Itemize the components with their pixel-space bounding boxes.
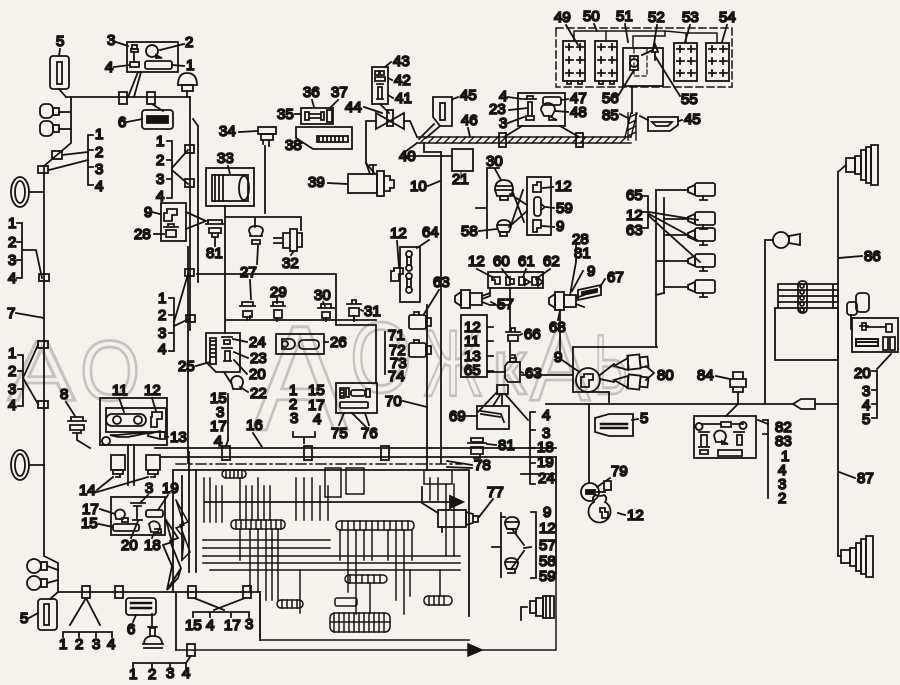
bus xyxy=(656,190,664,347)
svg-text:53: 53 xyxy=(682,9,699,26)
label 40 xyxy=(399,143,417,165)
dome lamp 58 xyxy=(497,220,511,236)
svg-text:39: 39 xyxy=(308,174,325,191)
label 30 xyxy=(314,287,331,306)
bracket 1 2 3 4 bottom mid xyxy=(129,657,190,683)
box 11/12 unit xyxy=(100,398,167,445)
plug 63b xyxy=(409,340,431,357)
leaders to 69/4 xyxy=(478,392,528,420)
bracket 28/81/9 right xyxy=(570,231,595,295)
headlight small 2 xyxy=(40,121,71,136)
watermark xyxy=(8,294,628,462)
svg-text:43: 43 xyxy=(393,53,410,70)
item 8 xyxy=(68,417,90,448)
plug P2 xyxy=(664,212,715,229)
svg-text:5: 5 xyxy=(862,411,870,428)
label 4 xyxy=(499,88,522,105)
svg-text:2: 2 xyxy=(8,363,16,380)
clip on cab vertical lower xyxy=(185,179,194,187)
svg-text:76: 76 xyxy=(361,425,378,442)
label 1 15 2 17 3 4 col xyxy=(289,382,325,443)
svg-text:4: 4 xyxy=(182,665,190,682)
svg-text:63: 63 xyxy=(433,274,450,291)
label 63 xyxy=(424,274,450,314)
right main vertical xyxy=(838,165,846,556)
bottom harness H3 xyxy=(58,591,260,593)
pear 12 xyxy=(589,495,611,523)
item 22 xyxy=(224,372,243,389)
svg-text:46: 46 xyxy=(461,112,478,129)
svg-text:61: 61 xyxy=(518,253,535,270)
svg-text:2: 2 xyxy=(148,666,156,683)
svg-text:4: 4 xyxy=(95,178,103,195)
label 70 xyxy=(385,393,427,410)
label 8 xyxy=(60,386,75,416)
svg-text:4: 4 xyxy=(206,617,214,634)
main vertical MV1 xyxy=(440,152,442,463)
label 36 xyxy=(303,84,320,107)
wire cab outline xyxy=(197,274,376,383)
svg-text:3: 3 xyxy=(95,161,103,178)
svg-text:20: 20 xyxy=(854,365,871,382)
right drop to 57/58 cluster xyxy=(521,457,556,573)
svg-text:59: 59 xyxy=(556,200,573,217)
svg-text:26: 26 xyxy=(330,334,347,351)
wiring 57 xyxy=(482,288,510,330)
label 81b xyxy=(487,437,515,454)
label 35 xyxy=(277,106,301,123)
lamp 5 (front marker) xyxy=(50,56,69,97)
label 12 xyxy=(144,382,161,411)
clip below 63c xyxy=(497,385,508,404)
bracket 1-4 (d) xyxy=(8,345,38,414)
svg-text:20: 20 xyxy=(249,366,266,383)
bracket 1 2 3 4 bottom left xyxy=(59,598,115,653)
svg-text:64: 64 xyxy=(422,224,439,241)
fuse module 53 xyxy=(674,43,697,81)
svg-text:5: 5 xyxy=(20,610,28,627)
plug 63c xyxy=(487,355,520,382)
box 82/83 xyxy=(694,416,756,458)
lamps 14 xyxy=(111,445,160,485)
label 9R xyxy=(554,349,578,371)
svg-text:4: 4 xyxy=(105,59,113,76)
svg-text:11: 11 xyxy=(112,382,128,399)
svg-text:34: 34 xyxy=(219,123,236,140)
svg-text:3: 3 xyxy=(156,171,164,188)
svg-text:3: 3 xyxy=(158,325,166,342)
label 63c xyxy=(521,365,542,382)
frame 12/11/13/65 xyxy=(461,315,493,379)
plugs 80 xyxy=(600,354,654,389)
ring 79 xyxy=(581,481,611,501)
box 69 xyxy=(477,406,509,429)
cluster wiring xyxy=(476,168,527,238)
svg-text:65: 65 xyxy=(626,187,643,204)
svg-text:4: 4 xyxy=(107,636,115,653)
switch 9 (steering) xyxy=(576,368,600,392)
fuse module 50 xyxy=(595,41,617,84)
svg-text:12: 12 xyxy=(539,520,556,537)
svg-text:19: 19 xyxy=(162,480,179,497)
labels 65/12/63 + bracket xyxy=(626,187,700,262)
svg-text:58: 58 xyxy=(461,223,478,240)
bracket 1-4 (b) xyxy=(156,133,188,205)
svg-text:25: 25 xyxy=(178,358,195,375)
headlight small 1 xyxy=(40,104,71,118)
label 66 xyxy=(520,326,541,343)
svg-text:4: 4 xyxy=(8,270,16,287)
switch 31 xyxy=(347,300,361,321)
svg-text:3: 3 xyxy=(107,32,115,49)
label 62 xyxy=(536,253,560,279)
svg-text:3: 3 xyxy=(8,252,16,269)
svg-text:45: 45 xyxy=(684,111,701,128)
svg-text:3: 3 xyxy=(245,616,253,633)
svg-text:2: 2 xyxy=(158,307,166,324)
box items 1-4 (lamp unit) xyxy=(127,42,178,72)
horn right xyxy=(765,232,800,404)
clip on V2 y403 xyxy=(38,401,48,408)
svg-text:63: 63 xyxy=(626,222,643,239)
label 41 xyxy=(388,90,412,107)
svg-text:32: 32 xyxy=(282,255,299,272)
item 44 bowtie xyxy=(376,110,404,129)
second vertical xyxy=(426,305,428,470)
svg-text:9: 9 xyxy=(554,349,562,366)
clip on V2 y277 xyxy=(39,274,49,281)
label 23 xyxy=(489,101,528,118)
svg-text:35: 35 xyxy=(277,106,294,123)
label 15/3/17/4 col xyxy=(210,390,228,450)
connector 68 xyxy=(549,292,584,352)
svg-text:3: 3 xyxy=(92,636,100,653)
frame with 12/59/9 glyphs xyxy=(527,177,551,235)
svg-text:36: 36 xyxy=(303,84,320,101)
label 25 xyxy=(178,358,210,375)
svg-text:12: 12 xyxy=(468,253,485,270)
svg-text:12: 12 xyxy=(555,178,572,195)
fuse box 25 with 24/23/20 xyxy=(206,333,240,372)
svg-text:15: 15 xyxy=(81,515,98,532)
svg-text:12: 12 xyxy=(627,507,644,524)
svg-text:80: 80 xyxy=(657,367,674,384)
svg-text:85: 85 xyxy=(602,107,619,124)
svg-text:9: 9 xyxy=(587,263,595,280)
svg-text:О: О xyxy=(80,324,140,419)
wire 84 to 82/83 box xyxy=(726,404,738,416)
clip H3 a xyxy=(82,586,90,598)
label 47 xyxy=(562,90,587,107)
svg-text:2: 2 xyxy=(778,490,786,507)
svg-text:20: 20 xyxy=(121,537,138,554)
svg-text:67: 67 xyxy=(607,269,624,286)
svg-text:33: 33 xyxy=(217,150,234,167)
clip y318 xyxy=(186,315,195,322)
label 13 xyxy=(165,429,187,446)
dome lamp on H1 xyxy=(178,73,197,97)
svg-text:10: 10 xyxy=(410,178,427,195)
label 61 xyxy=(518,253,535,277)
label 53 xyxy=(682,9,699,42)
label 43 xyxy=(385,53,410,70)
box 9/28 xyxy=(161,203,206,241)
clip H3 b xyxy=(115,586,123,598)
cable 38 xyxy=(296,127,352,149)
svg-text:68: 68 xyxy=(549,319,566,336)
svg-text:54: 54 xyxy=(719,9,736,26)
label 20f xyxy=(121,521,138,554)
wire y404 xyxy=(546,403,838,405)
connector 57a xyxy=(455,290,490,308)
tray 45b xyxy=(640,116,678,131)
label 5 xyxy=(56,33,64,56)
clip H3 c xyxy=(188,586,196,598)
label 27 xyxy=(240,246,258,299)
svg-text:1: 1 xyxy=(95,126,103,143)
bracket 1-4 (e) xyxy=(158,274,189,358)
svg-text:70: 70 xyxy=(385,393,402,410)
speaker bottom xyxy=(841,536,873,577)
V2 bottom elbow xyxy=(44,556,58,592)
svg-text:15: 15 xyxy=(185,617,202,634)
lamp 6b xyxy=(126,598,156,615)
svg-text:81: 81 xyxy=(206,245,223,262)
bracket 15 4 17 3 xyxy=(185,598,253,634)
bracket 82/83/1/4/3/2 xyxy=(758,419,792,507)
relay 33 xyxy=(206,168,301,333)
svg-text:2: 2 xyxy=(75,636,83,653)
bracket 1-4 (c) xyxy=(8,223,42,287)
svg-text:42: 42 xyxy=(394,72,411,89)
svg-text:44: 44 xyxy=(345,99,362,116)
bracket 4/3/18/19/24 xyxy=(530,407,555,487)
item 81a xyxy=(206,220,224,237)
label 59 xyxy=(546,200,573,217)
label 5b xyxy=(20,610,38,627)
flag 67 xyxy=(578,285,601,300)
clip H3 d xyxy=(243,586,251,598)
svg-text:1: 1 xyxy=(8,345,16,362)
svg-text:1: 1 xyxy=(59,636,67,653)
label 49 xyxy=(554,9,578,45)
bracket 71-74 xyxy=(385,327,407,385)
svg-text:3: 3 xyxy=(8,381,16,398)
label 86 xyxy=(839,248,881,265)
bus wire under 29/30/31 xyxy=(225,316,376,320)
svg-text:52: 52 xyxy=(648,9,665,26)
svg-text:14: 14 xyxy=(79,482,96,499)
clip on left drop 2 xyxy=(38,166,48,173)
svg-text:2: 2 xyxy=(8,234,16,251)
svg-text:62: 62 xyxy=(543,253,560,270)
svg-text:50: 50 xyxy=(583,8,600,25)
svg-text:38: 38 xyxy=(285,137,302,154)
lamp 5c xyxy=(595,414,633,436)
label 3f xyxy=(140,480,153,503)
label 87 xyxy=(839,470,874,487)
label 23 xyxy=(234,350,267,367)
zigzag arrows xyxy=(163,520,181,590)
bracket 20/3/4/5 xyxy=(854,354,891,428)
label 68 xyxy=(549,311,566,336)
box 64 xyxy=(400,247,420,302)
label 15f xyxy=(81,515,113,532)
label 52 xyxy=(642,9,665,55)
label 57 xyxy=(491,296,514,313)
box 36/37 xyxy=(301,108,333,124)
hatched riser xyxy=(628,113,636,140)
label 5c xyxy=(632,410,648,427)
svg-text:60: 60 xyxy=(493,253,510,270)
maze combs and bundles xyxy=(176,468,556,656)
arrow into 77 xyxy=(205,501,452,503)
label 56 xyxy=(602,70,634,107)
label 16 xyxy=(246,417,263,447)
svg-text:12: 12 xyxy=(390,225,407,242)
svg-text:24: 24 xyxy=(249,334,266,351)
lamp 5b xyxy=(38,592,58,630)
relay 55/56 box xyxy=(623,44,663,86)
svg-text:3: 3 xyxy=(145,480,153,497)
plug P5 xyxy=(656,280,715,297)
svg-text:22: 22 xyxy=(250,385,267,402)
radio 86 box xyxy=(775,281,838,360)
svg-text:1: 1 xyxy=(158,290,166,307)
fuse module 49 xyxy=(563,41,585,84)
svg-text:2: 2 xyxy=(156,152,164,169)
label 81 xyxy=(206,238,223,262)
bolt 66 xyxy=(506,328,520,362)
svg-text:29: 29 xyxy=(270,284,287,301)
label 12 xyxy=(390,225,407,267)
svg-text:24: 24 xyxy=(538,470,555,487)
clamps on shielded harness xyxy=(499,133,506,147)
svg-text:27: 27 xyxy=(240,264,257,281)
pedestal lamp xyxy=(143,614,163,648)
leaders from box down to shielded harness xyxy=(504,126,579,137)
label 39 xyxy=(308,174,348,191)
label 51 xyxy=(616,8,633,42)
label 79 xyxy=(597,463,628,487)
label 31 xyxy=(361,303,381,320)
svg-text:65: 65 xyxy=(464,362,481,379)
label 18f xyxy=(144,533,161,554)
label 1 xyxy=(172,57,194,74)
label 48 xyxy=(556,104,587,121)
main harness H1 xyxy=(66,96,190,98)
label 24 xyxy=(233,334,266,351)
box 4/23/3/47/48 xyxy=(518,93,565,126)
wire from 41-43 down to 44 xyxy=(380,104,389,113)
clip on left drop 1 xyxy=(52,151,62,159)
label 37 xyxy=(330,84,348,108)
label 11 xyxy=(112,382,128,412)
wire 44 to coil 39 and to hatch xyxy=(366,121,417,163)
svg-text:2: 2 xyxy=(95,144,103,161)
switch 27 upper dome xyxy=(249,226,263,244)
dome lamp 30 xyxy=(495,180,513,200)
svg-text:3: 3 xyxy=(290,410,298,427)
label 17f xyxy=(82,501,115,518)
wire 40 run xyxy=(424,143,441,152)
fuse block dashed box xyxy=(556,28,732,87)
svg-text:9: 9 xyxy=(543,504,551,521)
svg-text:2: 2 xyxy=(185,34,193,51)
svg-text:5: 5 xyxy=(56,33,64,50)
box 60/61/62 xyxy=(488,272,543,288)
label 6b xyxy=(127,615,136,638)
clip on V2 y343 xyxy=(38,341,48,348)
svg-text:28: 28 xyxy=(134,226,151,243)
label 77 xyxy=(479,484,504,517)
fuse module 54 xyxy=(706,43,729,81)
label 26 xyxy=(324,334,347,351)
box 17/15/3/19/18/20 xyxy=(111,497,165,535)
svg-text:3: 3 xyxy=(166,665,174,682)
label 3 xyxy=(107,32,128,49)
svg-text:78: 78 xyxy=(474,457,491,474)
switch 30b xyxy=(318,304,334,321)
label 45 xyxy=(453,87,477,104)
headlamp oval big bottom xyxy=(11,450,44,480)
small dome 57u xyxy=(505,517,519,533)
leaders from 45a to hatch xyxy=(419,124,440,139)
headlamp oval big top xyxy=(11,177,44,207)
svg-text:16: 16 xyxy=(246,417,263,434)
label 12p xyxy=(618,507,644,524)
relay 32 xyxy=(274,229,302,251)
speaker top xyxy=(846,145,878,185)
headlamp unit bottom xyxy=(530,596,554,618)
label 78 xyxy=(447,457,491,474)
switch 27 xyxy=(240,302,255,320)
label 29 xyxy=(270,284,287,303)
box 21 xyxy=(452,149,473,171)
svg-text:1: 1 xyxy=(8,215,16,232)
label 80 xyxy=(657,367,674,384)
plug P3 xyxy=(664,228,715,245)
box 41-43 xyxy=(372,67,388,104)
svg-text:12: 12 xyxy=(144,382,161,399)
box 20/3/4/5 xyxy=(852,318,898,352)
svg-text:45: 45 xyxy=(460,87,477,104)
label 19 xyxy=(158,480,179,510)
svg-text:6: 6 xyxy=(118,114,126,131)
box 75/76 xyxy=(336,383,377,413)
svg-text:1: 1 xyxy=(129,666,137,683)
svg-text:51: 51 xyxy=(616,8,633,25)
svg-text:41: 41 xyxy=(395,90,412,107)
svg-text:9: 9 xyxy=(556,218,564,235)
wire from fuse box to riser xyxy=(631,88,633,113)
svg-text:18: 18 xyxy=(144,537,161,554)
H2 harness lines xyxy=(155,448,556,457)
plug 63a xyxy=(409,312,431,329)
clip lower xyxy=(187,644,195,656)
wire down to 79 xyxy=(588,404,590,483)
capacitor 29 xyxy=(271,302,285,321)
zigzag break 2 xyxy=(176,500,190,560)
svg-text:77: 77 xyxy=(487,484,504,501)
label 75 xyxy=(331,413,348,442)
label 22 xyxy=(240,385,267,402)
svg-text:7: 7 xyxy=(7,305,15,322)
label 85 xyxy=(602,107,628,124)
svg-text:79: 79 xyxy=(611,463,628,480)
label 34 xyxy=(219,123,257,140)
wires from box 1-4 down to harness xyxy=(128,72,141,97)
